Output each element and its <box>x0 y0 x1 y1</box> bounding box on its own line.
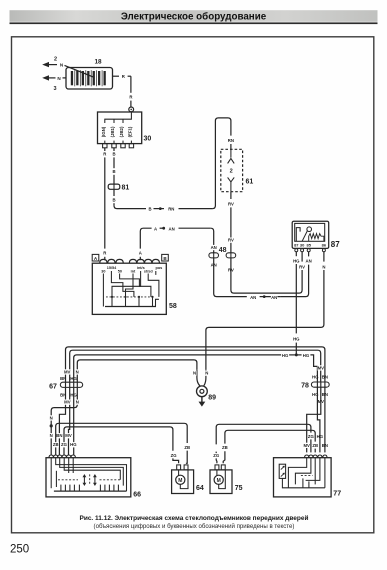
svg-text:N: N <box>76 400 79 405</box>
window motor 75 <box>210 465 232 494</box>
svg-text:50: 50 <box>118 269 122 273</box>
svg-text:N: N <box>50 433 53 438</box>
inline connector 81 <box>108 184 120 189</box>
svg-text:int: int <box>131 269 136 273</box>
wire MV 67 to 66 <box>69 388 70 456</box>
svg-text:250: 250 <box>10 543 29 555</box>
wire MV 78 to 77 <box>307 387 321 452</box>
wire ZG motor 75 to 77 <box>215 452 218 464</box>
svg-text:N: N <box>76 369 79 374</box>
svg-text:30: 30 <box>144 136 152 143</box>
control unit 30 <box>98 112 152 148</box>
svg-text:B: B <box>112 152 115 157</box>
svg-text:Рис. 11.12. Электрическая схем: Рис. 11.12. Электрическая схема стеклопо… <box>79 514 308 522</box>
bus wire HG (67 to junction to 78) <box>74 355 281 382</box>
svg-text:81: 81 <box>122 184 130 191</box>
svg-text:BN: BN <box>60 392 66 397</box>
wire ZG 66 to motor 64 <box>64 427 173 456</box>
svg-text:RV: RV <box>299 264 305 269</box>
bus wire BN (67 to 78) <box>66 347 325 382</box>
svg-text:HG: HG <box>312 375 319 380</box>
svg-text:BN: BN <box>60 376 66 381</box>
wire A-AN from switch 58 to connector 48 <box>140 228 213 260</box>
svg-text:MV: MV <box>65 433 72 438</box>
svg-text:HG: HG <box>312 392 319 397</box>
svg-text:HG: HG <box>293 258 300 263</box>
svg-text:61: 61 <box>246 179 254 186</box>
svg-text:MV: MV <box>64 369 71 374</box>
terminal block B <box>162 254 169 261</box>
svg-text:(IGN): (IGN) <box>101 126 106 137</box>
svg-text:3: 3 <box>53 86 56 92</box>
svg-text:ZB: ZB <box>53 442 59 447</box>
svg-text:RN: RN <box>228 138 234 143</box>
svg-text:MV: MV <box>303 443 310 448</box>
svg-text:HG: HG <box>293 337 300 342</box>
svg-text:HG: HG <box>282 353 289 358</box>
svg-text:18: 18 <box>94 59 102 66</box>
svg-text:89: 89 <box>208 395 216 402</box>
svg-text:HG: HG <box>303 353 310 358</box>
wire N diagonal into fuse strip <box>65 65 95 77</box>
window switch unit 66 <box>46 455 131 497</box>
svg-text:BN: BN <box>56 433 62 438</box>
svg-text:HG: HG <box>70 442 77 447</box>
svg-text:ZB: ZB <box>222 445 228 450</box>
connector 61 (dashed) <box>221 149 243 191</box>
svg-text:N: N <box>193 371 196 376</box>
wire B from unit 30 via 81 to RN loop <box>114 118 231 209</box>
svg-text:2: 2 <box>230 169 233 175</box>
svg-text:48: 48 <box>219 247 227 254</box>
wire HG 78 to 77 <box>317 387 320 452</box>
wire BN 78 to 77 <box>324 387 326 452</box>
svg-text:AN: AN <box>271 295 277 300</box>
svg-text:77: 77 <box>333 490 341 497</box>
svg-text:BN: BN <box>322 443 328 448</box>
connector eyelet on unit 30 <box>129 107 134 112</box>
wire RV 61 to 48 <box>230 192 232 253</box>
svg-text:86: 86 <box>322 243 327 248</box>
svg-text:30: 30 <box>300 243 305 248</box>
svg-text:M: M <box>178 478 182 484</box>
svg-text:ZG: ZG <box>213 453 220 458</box>
svg-text:N: N <box>50 415 53 420</box>
svg-text:ZG: ZG <box>171 453 178 458</box>
svg-text:N: N <box>322 264 325 269</box>
earth point 89 <box>197 386 217 407</box>
svg-text:A: A <box>154 226 157 231</box>
wire RV from 48 to relay pin 30 <box>231 252 302 293</box>
svg-text:A: A <box>139 251 142 256</box>
svg-text:AN: AN <box>211 245 217 250</box>
svg-text:MV: MV <box>318 365 325 370</box>
svg-text:2: 2 <box>54 56 57 62</box>
svg-text:ZG: ZG <box>61 442 68 447</box>
svg-text:HG: HG <box>317 434 324 439</box>
svg-text:ZB: ZB <box>312 443 318 448</box>
header bar <box>10 10 378 24</box>
svg-text:HG: HG <box>70 376 77 381</box>
svg-text:RV: RV <box>228 201 234 206</box>
svg-text:HG: HG <box>70 392 77 397</box>
svg-text:87: 87 <box>294 243 299 248</box>
connector 67 <box>60 382 82 387</box>
svg-text:78: 78 <box>301 383 309 390</box>
svg-text:75: 75 <box>235 485 243 492</box>
wire ZB 66 to motor 64 <box>56 423 188 455</box>
svg-text:64: 64 <box>196 485 204 492</box>
svg-text:BN: BN <box>322 375 328 380</box>
wire R from unit 30 down to switch 58 <box>104 148 106 260</box>
wire N 67 to 66 with earth splice <box>51 388 77 456</box>
svg-text:st/sd: st/sd <box>144 269 154 273</box>
svg-text:66: 66 <box>133 492 141 499</box>
svg-text:N: N <box>205 371 208 376</box>
window motor 64 <box>172 465 194 494</box>
wire R from fuse 18 to unit 30 <box>113 76 131 107</box>
wire ZB motor 75 to 77 <box>223 451 225 463</box>
svg-text:15/54: 15/54 <box>107 266 117 270</box>
svg-text:(JB1): (JB1) <box>110 126 115 137</box>
arrow terminal 2 N <box>42 56 64 67</box>
svg-text:B: B <box>148 207 151 212</box>
svg-text:AN: AN <box>305 258 311 263</box>
svg-text:87: 87 <box>331 240 340 249</box>
svg-text:AN: AN <box>250 295 256 300</box>
ignition switch 58 <box>92 259 166 314</box>
svg-text:B: B <box>112 169 115 174</box>
fuse box 18 <box>66 59 113 90</box>
svg-text:RN: RN <box>168 207 174 212</box>
bus wire MV (67 to 78) <box>70 350 321 382</box>
connector 78 <box>311 382 329 387</box>
svg-text:Электрическое оборудование: Электрическое оборудование <box>121 11 267 22</box>
svg-text:67: 67 <box>49 383 57 390</box>
window switch 77 <box>274 455 332 497</box>
svg-text:(JB2): (JB2) <box>119 126 124 137</box>
wire N from relay pin 86 to earth 89 <box>204 252 324 387</box>
svg-text:(объяснения цифровых и буквенн: (объяснения цифровых и буквенных обознач… <box>94 523 295 530</box>
wire BN 67 to 66 <box>59 388 65 456</box>
terminal block A <box>92 254 99 261</box>
svg-text:(EF1): (EF1) <box>127 126 132 137</box>
bus wire N (67 to earth 89) <box>77 360 197 382</box>
svg-text:85: 85 <box>306 243 311 248</box>
svg-text:RV: RV <box>228 238 234 243</box>
svg-text:58: 58 <box>169 303 177 310</box>
svg-text:M: M <box>217 478 221 484</box>
connector 48 <box>209 253 236 258</box>
svg-text:AN: AN <box>168 226 174 231</box>
svg-text:ZG: ZG <box>308 434 315 439</box>
wire AN from 48 to relay pin 85 <box>214 252 309 297</box>
svg-text:ZB: ZB <box>184 445 190 450</box>
svg-text:pos: pos <box>156 266 163 270</box>
wire HG 67 to 66 <box>73 388 75 456</box>
arrow terminal 3 N <box>42 75 66 92</box>
svg-text:MV: MV <box>64 400 71 405</box>
wire HG from relay pin 87 down to HG junction <box>295 252 297 355</box>
svg-text:30: 30 <box>101 269 105 273</box>
relay 87 <box>292 221 329 248</box>
svg-text:B: B <box>112 197 115 202</box>
